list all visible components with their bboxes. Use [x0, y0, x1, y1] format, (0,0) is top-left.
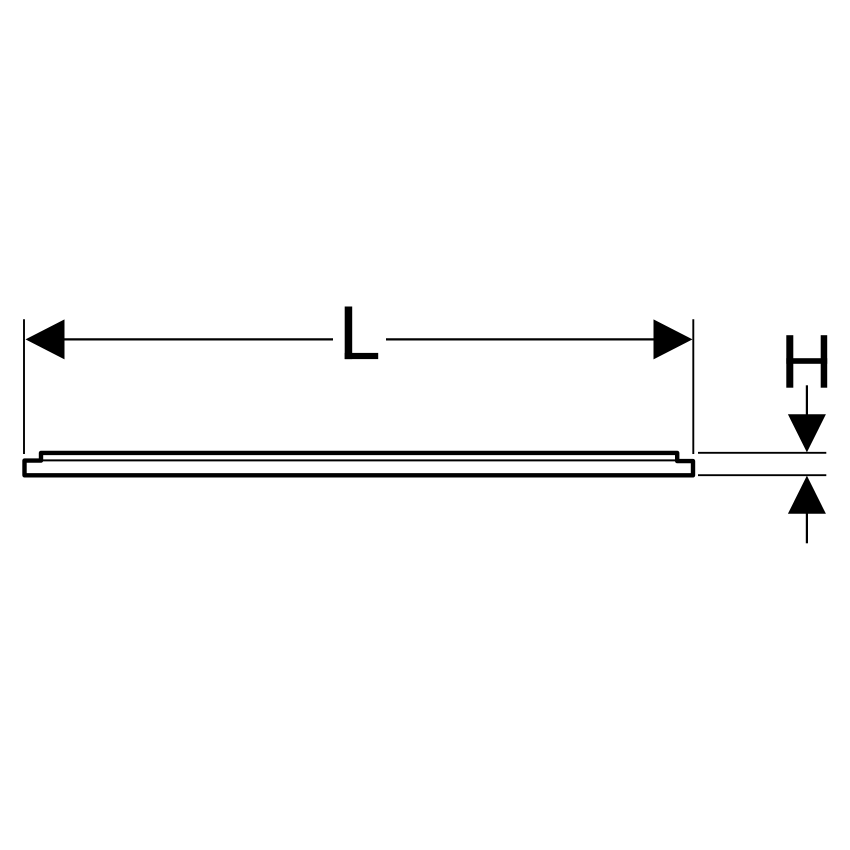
extension line right [692, 319, 694, 454]
panel profile outline [25, 453, 694, 475]
label H [786, 335, 827, 388]
panel inner seam line [43, 459, 676, 461]
arrowhead H up [788, 476, 826, 514]
label L [345, 307, 379, 360]
dimension line L right segment [386, 338, 655, 340]
H extension line bottom [698, 474, 826, 476]
dimension line L left segment [63, 338, 333, 340]
arrowhead L right [654, 319, 693, 359]
H extension line top [698, 452, 826, 454]
extension line left [23, 319, 25, 454]
H leader line upper [806, 385, 808, 415]
arrowhead L left [26, 319, 65, 359]
arrowhead H down [788, 414, 826, 452]
H leader line lower [806, 513, 808, 543]
